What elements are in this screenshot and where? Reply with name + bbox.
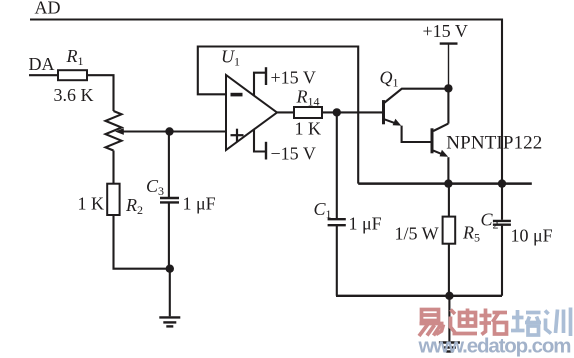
svg-text:1 K: 1 K	[78, 194, 105, 214]
transistor Q2 base bar	[431, 128, 434, 153]
wire R1 to potentiometer top	[87, 75, 114, 111]
junction node at wiper / op-amp plus input	[165, 127, 173, 135]
wire C3 bottom	[168, 203, 170, 269]
wire potentiometer bottom to R2	[112, 151, 114, 184]
wire DA input	[29, 74, 58, 76]
wire Q1 collector	[384, 89, 448, 103]
op-amp -15V terminal bar	[265, 142, 267, 160]
capacitor C2 plates	[493, 221, 511, 225]
svg-text:3.6 K: 3.6 K	[54, 85, 94, 105]
potentiometer wiper arrow	[115, 128, 169, 135]
wire C2 top	[501, 184, 503, 220]
+15V supply terminal bar (right)	[440, 42, 458, 44]
svg-text:10 μF: 10 μF	[511, 226, 553, 246]
wire wiper to op-amp plus input	[123, 130, 227, 132]
wire bottom rail to ground right	[448, 296, 450, 342]
capacitor C3 plates	[160, 198, 179, 202]
svg-text:C2: C2	[481, 210, 499, 232]
svg-text:+15 V: +15 V	[423, 21, 468, 41]
op-amp minus sign	[231, 93, 243, 97]
wire op-amp negative supply tap	[254, 130, 265, 152]
resistor R14	[294, 107, 322, 118]
transistor Q1 base bar	[382, 100, 385, 124]
wire +15V supply down to collector node	[448, 45, 450, 89]
wire op-amp minus input and feedback loop	[198, 47, 358, 184]
svg-text:C3: C3	[146, 176, 164, 198]
wire R5 to bottom rail	[448, 244, 450, 296]
svg-text:1 K: 1 K	[295, 119, 322, 139]
watermark chinese character xun (blue)	[545, 308, 571, 337]
svg-text:−15 V: −15 V	[271, 144, 316, 164]
wire collector node down to Q2 collector	[447, 88, 449, 123]
wire R14 to Q1 base	[322, 111, 382, 113]
svg-text:U1: U1	[221, 47, 240, 69]
watermark chinese character tuo (red)	[480, 309, 508, 335]
svg-text:R2: R2	[125, 195, 143, 217]
op-amp plus sign	[231, 129, 244, 142]
svg-text:www.edatop.com: www.edatop.com	[418, 335, 572, 358]
junction node +15V collector	[444, 84, 452, 92]
wire Q2 collector diagonal	[433, 124, 448, 131]
potentiometer RP zigzag	[106, 111, 122, 151]
junction node emitter rail C2	[498, 179, 506, 187]
ground symbol right	[439, 343, 460, 352]
wire emitter rail	[358, 182, 532, 185]
watermark chinese character yi (red)	[419, 310, 444, 337]
resistor R2	[107, 184, 119, 215]
resistor R1	[58, 70, 87, 80]
wire base node down to C1	[336, 112, 338, 219]
svg-text:1/5 W: 1/5 W	[395, 224, 439, 244]
wire R2 bottom to ground node	[114, 215, 170, 269]
junction node bottom rail ground	[445, 292, 453, 300]
svg-text:1 μF: 1 μF	[349, 214, 382, 234]
watermark chinese character pei (blue)	[511, 310, 541, 335]
watermark chinese character di (red)	[451, 309, 478, 334]
junction node R2/C3 ground	[166, 265, 174, 273]
svg-text:R5: R5	[462, 223, 480, 245]
op-amp +15V terminal bar	[265, 67, 267, 85]
svg-text:NPNTIP122: NPNTIP122	[446, 133, 542, 154]
op-amp U1	[226, 75, 277, 150]
wire C3 top	[168, 132, 170, 198]
svg-text:C1: C1	[314, 199, 332, 221]
svg-text:R1: R1	[66, 46, 84, 68]
wire Q2 emitter down to emitter rail	[447, 157, 449, 183]
wire op-amp output to R14	[277, 111, 294, 113]
wire C2 bottom	[501, 226, 503, 296]
capacitor C1 plates	[328, 219, 346, 225]
wire C1 bottom to bottom rail	[336, 225, 338, 295]
junction node emitter rail R5	[444, 179, 452, 187]
wire bottom rail	[336, 295, 502, 297]
svg-text:DA: DA	[29, 54, 55, 74]
node AD rail wire	[30, 20, 502, 184]
resistor R5	[443, 217, 456, 244]
junction node R14 output / base	[333, 108, 341, 116]
svg-text:AD: AD	[35, 0, 61, 18]
wire emitter rail to R5	[448, 184, 450, 217]
wire op-amp positive supply tap	[254, 73, 265, 96]
transistor Q2 emitter with arrow	[433, 150, 448, 157]
svg-text:Q1: Q1	[380, 68, 399, 90]
transistor Q1 emitter with arrow	[384, 119, 401, 126]
svg-text:R14: R14	[296, 87, 320, 109]
wire Q1 emitter to Q2 base	[402, 126, 431, 142]
svg-text:1 μF: 1 μF	[183, 194, 216, 214]
svg-text:+15 V: +15 V	[271, 68, 316, 88]
ground symbol left	[159, 317, 180, 326]
wire node to ground left	[169, 269, 171, 317]
